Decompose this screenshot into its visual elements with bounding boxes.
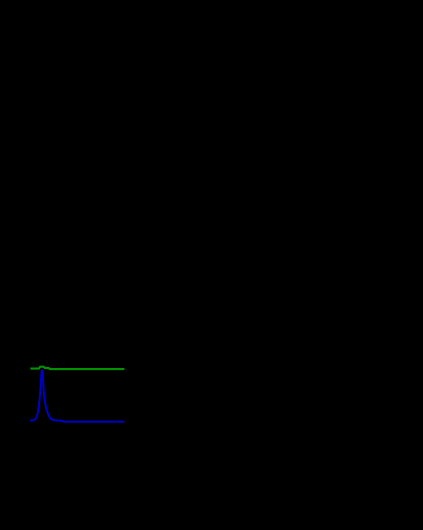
blue trace (sharp resonance peak) bbox=[30, 370, 124, 421]
green trace (reference line with small bump) bbox=[30, 367, 124, 369]
